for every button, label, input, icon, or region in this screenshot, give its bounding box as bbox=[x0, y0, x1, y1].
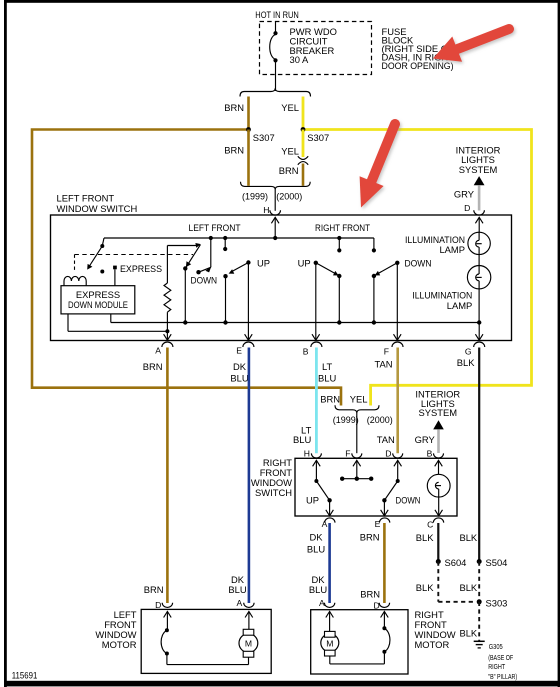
svg-text:BRN: BRN bbox=[143, 361, 163, 372]
wire BRN right switch pin E to right motor bbox=[383, 523, 386, 603]
wire to pin H of left front window switch bbox=[263, 190, 275, 215]
left motor wire labels bbox=[144, 574, 247, 610]
resistor top feed with arrow to express blade bbox=[167, 243, 201, 248]
svg-text:A: A bbox=[322, 519, 328, 529]
svg-text:UP: UP bbox=[257, 257, 270, 268]
svg-text:BLK: BLK bbox=[459, 582, 477, 593]
svg-text:E: E bbox=[236, 345, 242, 355]
svg-text:M: M bbox=[245, 639, 252, 649]
svg-text:S307: S307 bbox=[307, 132, 329, 143]
mechanical coupling dashed link bbox=[75, 255, 194, 272]
svg-text:BRN: BRN bbox=[224, 102, 244, 113]
dashed BLK S303 to ground bbox=[459, 602, 479, 641]
lamp rail junction and pin G arrow bbox=[475, 320, 483, 340]
express switch blade S1 bbox=[87, 238, 104, 274]
wire BRN 2000 into brace bbox=[279, 164, 303, 186]
svg-text:A: A bbox=[155, 345, 161, 355]
fuse block caption bbox=[382, 26, 455, 71]
svg-text:D: D bbox=[155, 600, 161, 610]
svg-text:LEFT FRONT: LEFT FRONT bbox=[57, 193, 115, 204]
wire YEL 2000 below S307 bbox=[281, 130, 303, 158]
wire rail to pin A with arrow bbox=[164, 331, 172, 340]
right front DOWN switch blade bbox=[372, 258, 432, 325]
right motor pin A entry arrow bbox=[326, 612, 334, 632]
svg-text:DOWN: DOWN bbox=[405, 258, 432, 269]
svg-text:B: B bbox=[303, 346, 309, 356]
pin F entry arrow and tie bar bbox=[340, 460, 373, 481]
svg-text:DK: DK bbox=[309, 531, 323, 542]
wire UP contact to pin B bbox=[312, 263, 320, 340]
right motor internal circuit breaker bbox=[382, 626, 390, 664]
svg-text:BRN: BRN bbox=[320, 393, 340, 404]
internal top rail bbox=[104, 236, 374, 240]
svg-text:30 A: 30 A bbox=[290, 54, 310, 65]
svg-text:(1999): (1999) bbox=[333, 414, 359, 425]
right motor armature M bbox=[321, 631, 385, 664]
right switch bottom pin connectors A E C bbox=[322, 518, 444, 529]
svg-text:SWITCH: SWITCH bbox=[255, 487, 292, 498]
label LT BLU above right switch pin H bbox=[293, 424, 312, 445]
svg-text:YEL: YEL bbox=[281, 102, 299, 113]
svg-text:LEFT FRONT: LEFT FRONT bbox=[189, 222, 241, 233]
pin H entry arrow right switch bbox=[313, 460, 321, 481]
ground G305 bbox=[474, 641, 518, 681]
pin E connector and label bbox=[230, 342, 254, 383]
left window DOWN switch blade bbox=[191, 236, 218, 286]
svg-text:BRN: BRN bbox=[360, 531, 380, 542]
right motor wire labels bbox=[309, 574, 380, 611]
wire BLK pin C to S604 bbox=[437, 523, 439, 562]
brace splitting breaker feed into BRN and YEL bbox=[240, 88, 311, 96]
svg-text:GRY: GRY bbox=[454, 188, 475, 199]
splice S504 bbox=[477, 557, 508, 568]
red annotation arrow at left front window switch bbox=[360, 124, 395, 208]
svg-text:D: D bbox=[385, 449, 391, 459]
svg-text:LAMP: LAMP bbox=[447, 300, 473, 311]
svg-text:F: F bbox=[384, 346, 389, 356]
circuit breaker PWR WDO 30A bbox=[270, 22, 337, 92]
svg-text:S604: S604 bbox=[445, 557, 467, 568]
svg-text:H: H bbox=[263, 205, 269, 215]
internal bottom common rail bbox=[111, 322, 479, 324]
svg-text:BLU: BLU bbox=[228, 584, 246, 595]
labels BRN YEL at right front switch feed bbox=[320, 393, 367, 404]
svg-text:BRN: BRN bbox=[224, 145, 244, 156]
svg-text:EXPRESS: EXPRESS bbox=[120, 263, 162, 274]
svg-text:BLK: BLK bbox=[416, 532, 434, 543]
right front UP switch blade bbox=[298, 258, 342, 325]
svg-text:RIGHT FRONT: RIGHT FRONT bbox=[315, 222, 370, 233]
wire UP contact to pin E bbox=[245, 263, 253, 341]
svg-text:BRN: BRN bbox=[279, 165, 299, 176]
pin F connector and label bbox=[374, 342, 403, 370]
svg-text:TAN: TAN bbox=[377, 434, 395, 445]
svg-text:G305: G305 bbox=[489, 642, 503, 651]
pin G connector and label bbox=[457, 342, 485, 368]
module bottom-left lead to pin A rail bbox=[68, 314, 167, 331]
wire BRN 1999 below S307 bbox=[224, 130, 248, 186]
svg-text:DOWN: DOWN bbox=[396, 494, 421, 505]
left motor pin connectors D A bbox=[162, 603, 254, 608]
pin D entry arrow right switch bbox=[394, 460, 402, 481]
splice S303 bbox=[477, 597, 508, 608]
svg-text:WINDOW SWITCH: WINDOW SWITCH bbox=[57, 203, 138, 214]
svg-text:ILLUMINATION: ILLUMINATION bbox=[412, 289, 472, 300]
svg-text:"B" PILLAR): "B" PILLAR) bbox=[488, 672, 517, 681]
svg-text:MOTOR: MOTOR bbox=[415, 639, 450, 650]
wire TAN pin F to right switch pin D bbox=[396, 348, 399, 454]
wire BRN drop to S307 bbox=[247, 97, 250, 130]
fuse block dashed box bbox=[255, 9, 371, 75]
svg-text:A: A bbox=[236, 598, 242, 608]
svg-text:S307: S307 bbox=[253, 132, 275, 143]
wire DK BLU pin E to left motor bbox=[248, 348, 251, 604]
wire labels below right switch bbox=[307, 531, 478, 554]
pin D entry arrow bbox=[475, 217, 483, 232]
svg-text:UP: UP bbox=[306, 494, 319, 505]
right switch illumination lamp E3 bbox=[427, 460, 450, 516]
express down module box bbox=[61, 286, 135, 314]
svg-text:BLK: BLK bbox=[459, 627, 477, 638]
svg-text:E: E bbox=[375, 519, 381, 529]
svg-text:B: B bbox=[427, 449, 433, 459]
illumination lamp E1 bbox=[405, 232, 490, 265]
svg-text:(BASE OF: (BASE OF bbox=[488, 653, 513, 662]
right front window switch box U3 bbox=[251, 457, 457, 516]
right switch DOWN blade bbox=[381, 479, 421, 516]
wire brace to right switch pin F bbox=[356, 413, 358, 453]
svg-text:D: D bbox=[464, 203, 470, 213]
splice S307 left bbox=[246, 127, 275, 143]
wire YEL drop to S307 bbox=[302, 97, 305, 130]
dashed BLK S504 to S303 bbox=[459, 562, 479, 602]
svg-text:UP: UP bbox=[298, 258, 311, 269]
right switch UP blade bbox=[306, 479, 333, 516]
svg-text:BLU: BLU bbox=[318, 372, 336, 383]
relay coil L1 of express down module bbox=[64, 276, 86, 285]
left front window switch box U2 bbox=[51, 193, 512, 341]
svg-text:S504: S504 bbox=[486, 557, 508, 568]
svg-text:M: M bbox=[326, 638, 333, 648]
right front section stub pair bbox=[337, 236, 376, 253]
right switch top pin connectors H F D B bbox=[304, 449, 444, 459]
svg-text:BLU: BLU bbox=[309, 584, 327, 595]
svg-text:G: G bbox=[465, 346, 472, 356]
inline connector on 2000 branch bbox=[298, 156, 308, 165]
svg-text:BLK: BLK bbox=[459, 532, 477, 543]
svg-text:LT: LT bbox=[322, 361, 333, 372]
wire DK BLU right switch pin A to right motor bbox=[328, 523, 331, 603]
svg-text:RIGHT: RIGHT bbox=[488, 662, 505, 671]
interior lights system feed to right switch bbox=[415, 389, 461, 453]
express down blade to module sense bbox=[183, 245, 200, 325]
svg-text:BLK: BLK bbox=[416, 582, 434, 593]
pin A connector and label bbox=[143, 342, 173, 372]
left motor internal circuit breaker bbox=[161, 628, 169, 664]
svg-text:GRY: GRY bbox=[415, 434, 436, 445]
svg-text:S303: S303 bbox=[486, 597, 508, 608]
svg-text:BRN: BRN bbox=[144, 584, 164, 595]
svg-text:(1999): (1999) bbox=[242, 191, 268, 202]
svg-text:BLU: BLU bbox=[307, 543, 325, 554]
splice S307 right bbox=[301, 127, 330, 143]
svg-text:BRN: BRN bbox=[360, 588, 380, 599]
wire YEL loop from S307 around right side to right front switch (2000) bbox=[303, 130, 532, 406]
svg-text:(2000): (2000) bbox=[367, 414, 393, 425]
svg-text:DK: DK bbox=[233, 361, 247, 372]
interior lights system feed top right bbox=[454, 144, 501, 215]
left motor armature M bbox=[167, 629, 258, 664]
wire BRN pin A to left motor bbox=[166, 348, 169, 604]
svg-text:LAMP: LAMP bbox=[439, 244, 465, 255]
left front window motor box M1 bbox=[95, 609, 271, 674]
svg-text:H: H bbox=[304, 449, 310, 459]
svg-text:TAN: TAN bbox=[374, 359, 392, 370]
dashed BLK S604 to S303 bbox=[416, 562, 476, 602]
svg-text:DOOR OPENING): DOOR OPENING) bbox=[382, 60, 454, 71]
pin H entry arrow bbox=[271, 217, 279, 238]
module bottom-right lead to common rail bbox=[110, 314, 112, 323]
svg-text:DOWN MODULE: DOWN MODULE bbox=[68, 299, 128, 310]
svg-text:BLU: BLU bbox=[293, 434, 311, 445]
svg-text:DOWN: DOWN bbox=[191, 275, 218, 286]
wire BRN loop from S307 around left side to right front switch (1999) bbox=[32, 130, 341, 406]
wire LT BLU pin B to right switch pin H bbox=[315, 348, 318, 454]
right front window motor box M2 bbox=[311, 609, 456, 674]
illumination lamp E2 bbox=[412, 265, 491, 322]
svg-text:YEL: YEL bbox=[350, 393, 368, 404]
brace joining 1999/2000 feeds to pin H bbox=[241, 182, 311, 202]
brace joining 1999/2000 feeds to right switch pin F bbox=[333, 405, 393, 425]
left window UP switch blade bbox=[223, 236, 270, 325]
svg-text:BLK: BLK bbox=[457, 357, 475, 368]
pin B connector and label bbox=[303, 342, 337, 383]
svg-text:115691: 115691 bbox=[12, 669, 38, 680]
express contact and label bbox=[113, 263, 162, 286]
svg-text:YEL: YEL bbox=[281, 146, 299, 157]
svg-text:D: D bbox=[373, 600, 379, 610]
svg-text:SYSTEM: SYSTEM bbox=[459, 164, 498, 175]
svg-text:C: C bbox=[427, 519, 433, 529]
svg-text:SYSTEM: SYSTEM bbox=[419, 407, 458, 418]
red annotation arrow at fuse block bbox=[433, 29, 509, 62]
splice S604 bbox=[436, 557, 467, 568]
resistor R1 bbox=[164, 246, 171, 334]
svg-text:HOT IN RUN: HOT IN RUN bbox=[255, 9, 298, 20]
svg-text:MOTOR: MOTOR bbox=[102, 639, 137, 650]
svg-text:F: F bbox=[345, 449, 350, 459]
wire DOWN contact to pin F bbox=[394, 263, 402, 340]
left motor pin D entry arrow bbox=[164, 612, 172, 631]
left motor pin A entry arrow bbox=[245, 612, 253, 630]
right motor pin connectors A D bbox=[324, 603, 389, 608]
right motor pin D entry arrow bbox=[381, 612, 389, 629]
pin H connector bbox=[270, 210, 281, 215]
svg-text:BLU: BLU bbox=[230, 372, 248, 383]
svg-text:(2000): (2000) bbox=[276, 191, 302, 202]
wire BLK pin G down to S504 bbox=[478, 348, 480, 562]
